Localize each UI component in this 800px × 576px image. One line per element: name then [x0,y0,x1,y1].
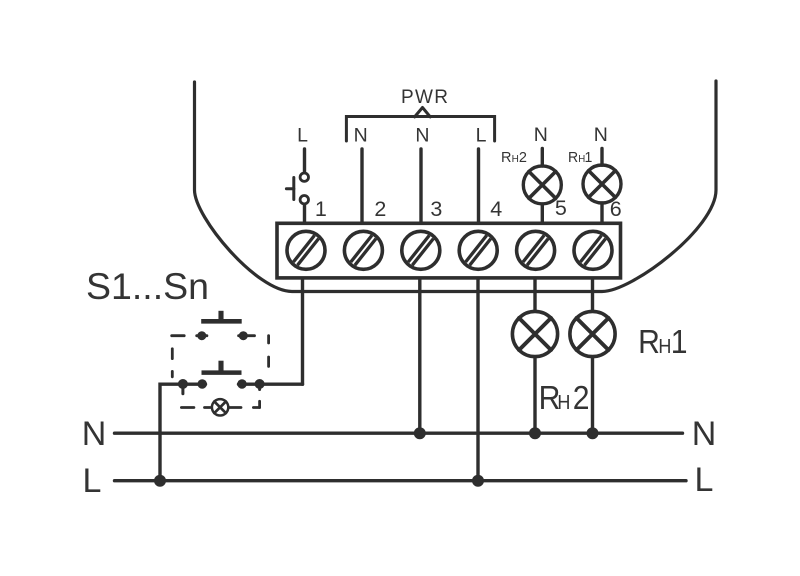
svg-text:2: 2 [573,379,590,417]
svg-text:3: 3 [430,197,442,221]
svg-text:H: H [658,336,671,358]
svg-text:L: L [695,461,714,499]
svg-text:N: N [354,124,368,146]
svg-text:N: N [594,124,608,146]
svg-text:H: H [557,392,570,414]
svg-text:L: L [297,124,308,146]
svg-text:1: 1 [584,150,592,166]
svg-text:2: 2 [374,197,386,221]
svg-text:5: 5 [555,196,567,220]
svg-text:1: 1 [671,323,688,361]
svg-text:L: L [476,124,487,146]
svg-text:R: R [501,150,511,166]
svg-text:2: 2 [519,150,527,166]
svg-text:L: L [83,462,102,500]
svg-text:PWR: PWR [401,87,448,108]
svg-text:N: N [82,415,107,453]
svg-text:R: R [638,323,660,361]
svg-text:N: N [415,124,429,146]
svg-text:1: 1 [315,197,327,221]
svg-text:N: N [692,415,717,453]
svg-text:H: H [512,154,519,165]
svg-text:S1...Sn: S1...Sn [86,265,209,307]
svg-text:N: N [534,124,548,146]
svg-text:4: 4 [490,197,502,221]
svg-text:R: R [568,150,578,166]
svg-text:6: 6 [610,197,622,221]
